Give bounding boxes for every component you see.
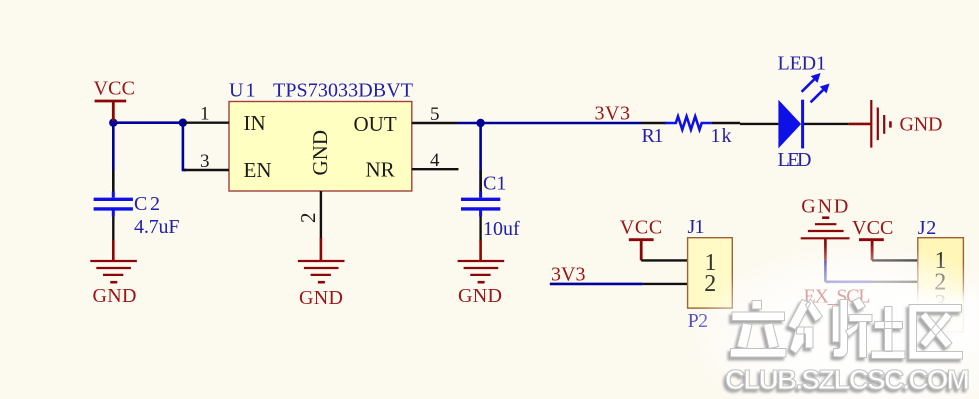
svg-text:3V3: 3V3 <box>595 103 631 125</box>
net label 3V3 (top) <box>595 103 631 125</box>
pin 4 (NR) <box>412 150 459 171</box>
svg-text:VCC: VCC <box>620 217 662 239</box>
capacitor C2 <box>94 170 180 241</box>
wire GND to J2 pin2 <box>825 260 917 281</box>
svg-text:LED: LED <box>778 149 812 171</box>
wire VCC to J1 pin1 <box>641 259 687 261</box>
li <box>731 301 787 358</box>
op-amp U1 TPS73033DBVT body <box>229 80 413 192</box>
ground GND under C2 <box>90 240 137 307</box>
svg-text:4.7uF: 4.7uF <box>134 216 180 238</box>
svg-text:GND: GND <box>801 196 848 218</box>
svg-text:3: 3 <box>200 151 210 172</box>
power symbol VCC (J1) <box>620 217 662 261</box>
ground GND under C1 <box>458 240 505 307</box>
svg-text:U1: U1 <box>229 80 256 102</box>
svg-text:GND: GND <box>458 285 502 307</box>
pin 3 (EN) <box>184 151 229 172</box>
svg-text:GND: GND <box>308 130 332 176</box>
pin 2 (GND) <box>296 191 321 239</box>
power symbol VCC (left) <box>94 78 136 122</box>
qu <box>909 305 963 360</box>
svg-text:VCC: VCC <box>852 217 893 239</box>
connector J2 <box>918 217 964 332</box>
watermark CJK characters <box>731 298 963 360</box>
svg-text:GND: GND <box>900 114 943 136</box>
svg-text:EN: EN <box>244 158 272 182</box>
svg-text:CLUB.SZLCSC.COM: CLUB.SZLCSC.COM <box>725 364 970 395</box>
svg-text:1k: 1k <box>711 125 732 147</box>
she <box>846 298 906 359</box>
svg-text:4: 4 <box>430 150 440 171</box>
connector J1 <box>688 216 733 332</box>
svg-text:C1: C1 <box>483 173 506 195</box>
svg-text:2: 2 <box>296 213 320 224</box>
wire junction down to C1 <box>479 123 482 192</box>
node junction at C1 tap <box>476 119 484 127</box>
svg-text:VCC: VCC <box>94 78 136 100</box>
pin 5 (OUT) <box>412 104 457 125</box>
net label EX_SCL <box>804 286 871 308</box>
ground GND above J2 (inverted) <box>801 196 850 261</box>
svg-text:LED1: LED1 <box>778 53 827 75</box>
svg-text:3V3: 3V3 <box>551 264 586 286</box>
svg-text:1: 1 <box>200 104 210 125</box>
ground GND right of LED (rotated) <box>849 100 943 148</box>
power symbol VCC (J2) <box>852 217 893 260</box>
wire 3V3 to J1 pin2 <box>550 283 688 286</box>
wire junction2 down to EN row <box>182 123 186 170</box>
ground GND under U1 pin2 <box>298 238 345 309</box>
node junction at U1 IN branch <box>179 119 187 127</box>
svg-text:TPS73033DBVT: TPS73033DBVT <box>273 80 413 102</box>
chuang <box>788 299 848 357</box>
resistor R1 <box>642 116 741 147</box>
node junction at VCC/C2 <box>109 119 117 127</box>
capacitor C1 <box>461 170 520 241</box>
watermark glow <box>690 243 979 399</box>
svg-text:J2: J2 <box>918 217 937 239</box>
svg-text:NR: NR <box>366 158 395 182</box>
svg-text:GND: GND <box>93 285 137 307</box>
LED D1 <box>740 53 849 172</box>
wire VCC-to-U1 pin1 net (horizontal) <box>113 121 184 124</box>
watermark latin text <box>725 364 970 395</box>
svg-text:10uf: 10uf <box>483 218 520 240</box>
svg-text:OUT: OUT <box>354 112 397 136</box>
pin 1 (IN) <box>184 104 229 125</box>
wire OUT net to junction and 3V3 run <box>457 122 642 125</box>
wire VCC to J2 pin1 <box>872 259 918 261</box>
svg-text:J1: J1 <box>688 216 705 238</box>
svg-text:IN: IN <box>244 111 266 135</box>
net label 3V3 (J1) <box>551 264 586 286</box>
wire junction1 down to C2 <box>112 123 115 192</box>
svg-text:C2: C2 <box>134 193 160 215</box>
svg-text:5: 5 <box>430 104 440 125</box>
svg-text:R1: R1 <box>642 125 664 147</box>
svg-text:GND: GND <box>299 287 343 309</box>
